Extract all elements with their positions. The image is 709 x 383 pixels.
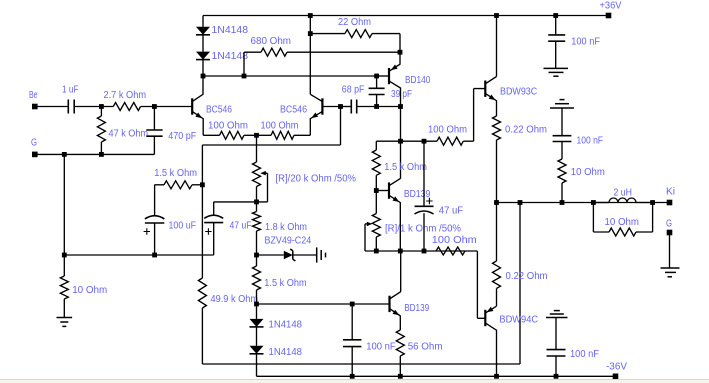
junction Q2 base node (338, 104, 343, 109)
svg-text:470 pF: 470 pF (168, 131, 196, 142)
junction 100nF mid top (350, 302, 355, 307)
label D2 1N4148 (212, 51, 249, 62)
junction bias top (254, 302, 259, 307)
svg-text:0.22 Ohm: 0.22 Ohm (505, 124, 547, 135)
junction cap row collector (398, 104, 403, 109)
ground inverted bottom (546, 311, 568, 318)
junction 680 tap (242, 74, 247, 79)
label 100 Ohm row (432, 235, 477, 246)
capacitor 470 pF (146, 107, 162, 137)
wire G right down (669, 235, 671, 268)
resistor 2.7 k Ohm (101, 103, 154, 111)
wire 680 vertical lead (243, 52, 245, 76)
label 22 Ohm (338, 17, 371, 28)
resistor 22 Ohm (310, 30, 400, 53)
wire output row (497, 202, 670, 204)
svg-text:2.7 k Ohm: 2.7 k Ohm (104, 90, 147, 101)
svg-text:BDW93C: BDW93C (500, 86, 537, 97)
junction 68pF-39pF (374, 104, 379, 109)
label +36V (600, 1, 622, 12)
svg-text:[R]/20 k Ohm /50%: [R]/20 k Ohm /50% (276, 173, 357, 184)
resistor 680 Ohm (244, 48, 400, 56)
svg-text:G: G (31, 138, 37, 149)
junction Q3 emitter row (398, 249, 403, 254)
capacitor 39 pF (369, 76, 385, 107)
junction rail 100nF (553, 13, 558, 18)
junction G-10ohm (62, 152, 67, 157)
wire feedback column (201, 145, 203, 185)
wire G line (38, 136, 155, 154)
label 49.9 k Ohm (211, 294, 259, 305)
label 47 uF mid (230, 221, 252, 232)
capacitor 68 pF (341, 100, 401, 114)
junction pot20k bottom (254, 200, 259, 205)
svg-text:BC546: BC546 (206, 105, 232, 116)
junction rail x310 (308, 13, 313, 18)
junction VAS mid (398, 139, 403, 144)
label Q1 BC546 (206, 105, 232, 116)
junction 47uF bottom row (422, 249, 427, 254)
junction out 022 (494, 200, 499, 205)
svg-text:G: G (666, 219, 672, 230)
resistor 1.5 k Ohm vas (372, 141, 400, 190)
wire driver row (376, 251, 485, 318)
diode D2 1N4148 (196, 52, 210, 76)
junction Q1 base node (152, 104, 157, 109)
svg-text:10 Ohm: 10 Ohm (571, 167, 605, 178)
junction out L1 right (650, 200, 655, 205)
label 470 pF (168, 131, 196, 142)
terminal +36V pad (606, 13, 612, 19)
transistor Q7 BD140 (377, 52, 401, 106)
label 680 Ohm (251, 36, 292, 47)
diode D1 1N4148 (196, 27, 210, 52)
svg-text:1.5 k Ohm: 1.5 k Ohm (384, 162, 427, 173)
svg-text:+36V: +36V (600, 1, 622, 12)
svg-text:100 Ohm: 100 Ohm (432, 235, 477, 246)
svg-text:1N4148: 1N4148 (212, 25, 249, 36)
svg-text:BDW94C: BDW94C (499, 315, 538, 326)
wire diode column top (202, 16, 204, 27)
label G input (31, 138, 37, 149)
zener BZV49-C24 (257, 249, 317, 261)
svg-text:68 pF: 68 pF (342, 84, 365, 95)
junction out fb (518, 200, 523, 205)
svg-text:Be: Be (29, 90, 38, 101)
wire +36V top rail (203, 15, 609, 17)
wire G down (63, 154, 65, 255)
label 2 uH (614, 188, 633, 199)
capacitor 100 nF rail+ (548, 16, 565, 69)
label BZV49-C24 (265, 235, 312, 246)
terminal Be pad (32, 104, 38, 110)
resistor 56 Ohm (396, 330, 404, 376)
capacitor 100 uF (144, 185, 165, 255)
ground earth right (661, 268, 680, 277)
label 100 nF rail- (570, 349, 599, 360)
junction input node (99, 104, 104, 109)
resistor 0.22 Ohm upper (493, 116, 501, 203)
svg-text:100 nF: 100 nF (366, 341, 395, 352)
wire rail to Q2 collector (309, 16, 311, 95)
transistor Q4 BDW93C (485, 16, 496, 117)
capacitor 100 nF zobel (553, 108, 572, 142)
resistor 1.5 k Ohm low (253, 255, 261, 304)
junction gnd rail left (62, 253, 67, 258)
svg-text:100 nF: 100 nF (570, 349, 599, 360)
svg-text:39 pF: 39 pF (391, 89, 412, 100)
ground zener rotated (317, 247, 326, 262)
svg-text:BC546: BC546 (280, 105, 307, 116)
svg-text:47 uF: 47 uF (230, 221, 252, 232)
junction rail BDW93C (494, 13, 499, 18)
svg-text:22 Ohm: 22 Ohm (338, 17, 371, 28)
label 0.22 Ohm lower (506, 271, 548, 282)
inductor 2 uH (593, 198, 652, 203)
resistor 1.8 k Ohm (253, 202, 261, 255)
svg-text:100 Ohm: 100 Ohm (208, 120, 248, 131)
label BDW94C (499, 315, 538, 326)
potentiometer R 1k (365, 191, 380, 252)
label 100 nF zobel (577, 135, 604, 146)
label 47 k Ohm (109, 128, 149, 139)
ground zobel inverted (550, 100, 574, 108)
label D3 1N4148 (269, 319, 303, 330)
label 10 Ohm left (72, 285, 107, 296)
diode D3 1N4148 (250, 304, 264, 346)
label G right (666, 219, 672, 230)
resistor 0.22 Ohm lower (493, 203, 501, 307)
wire -36V rail (257, 375, 616, 377)
potentiometer R 20k (253, 135, 268, 202)
terminal G pad (32, 152, 38, 158)
svg-text:0.22 Ohm: 0.22 Ohm (506, 271, 548, 282)
svg-text:100 Ohm: 100 Ohm (428, 124, 467, 135)
svg-text:56 Ohm: 56 Ohm (408, 341, 443, 352)
capacitor 100 nF bias (343, 304, 361, 376)
wire 47uF mid top (214, 202, 257, 216)
label 100 Ohm right (261, 120, 299, 131)
svg-text:1.5 k Ohm: 1.5 k Ohm (264, 278, 306, 289)
label Q2 BC546 (280, 105, 307, 116)
label Be (29, 90, 38, 101)
svg-text:100 uF: 100 uF (169, 221, 197, 232)
capacitor 100 nF rail- (547, 318, 566, 377)
resistor 100 Ohm row (436, 247, 465, 255)
resistor 49.9 k Ohm (198, 185, 206, 364)
junction tail (254, 133, 259, 138)
label Ki (666, 186, 675, 197)
wire feedback horizontal (202, 107, 340, 146)
junction pot bottom (374, 249, 379, 254)
label R 1k (385, 224, 461, 235)
terminal Ki pad (667, 200, 673, 206)
junction railB 56ohm (398, 374, 403, 379)
svg-text:47 k Ohm: 47 k Ohm (109, 128, 149, 139)
junction 47uF top (422, 139, 427, 144)
label 100 nF bias (366, 341, 395, 352)
label 0.22 Ohm upper (505, 124, 547, 135)
junction railB 100nF (554, 374, 559, 379)
junction 22 Ohm tap (308, 31, 313, 36)
svg-text:47 uF: 47 uF (439, 205, 463, 216)
label 2.7 k Ohm (104, 90, 147, 101)
resistor 10 Ohm parallel (593, 203, 652, 237)
label 10 Ohm zobel (571, 167, 605, 178)
resistor 100 Ohm right (257, 131, 311, 139)
label 1.5 k Ohm low (264, 278, 306, 289)
svg-text:Ki: Ki (666, 186, 675, 197)
svg-text:1N4148: 1N4148 (269, 319, 303, 330)
wire ground rail (64, 254, 213, 256)
junction G-47k (99, 152, 104, 157)
resistor 47 k Ohm (97, 107, 105, 155)
svg-text:-36V: -36V (606, 361, 627, 372)
svg-text:1.5 k Ohm: 1.5 k Ohm (154, 168, 197, 179)
label BD139 lower (404, 303, 429, 314)
transistor Q6 BDW94C (485, 306, 496, 376)
ground earth left (57, 318, 73, 327)
transistor Q1 BC546 (154, 76, 203, 135)
diode D4 1N4148 (250, 346, 264, 377)
status bar strip (0, 379, 709, 383)
junction railB 100nF bias (350, 374, 355, 379)
label -36V (606, 361, 627, 372)
junction railB BDW94C (494, 374, 499, 379)
capacitor 47 uF right (415, 141, 434, 251)
label 1.8 k Ohm (265, 222, 307, 233)
junction BD140 base node (374, 74, 379, 79)
svg-text:[R]/1 k Ohm /50%: [R]/1 k Ohm /50% (385, 224, 461, 235)
junction diode bottom (201, 74, 206, 79)
svg-text:10 Ohm: 10 Ohm (72, 285, 107, 296)
svg-text:1 uF: 1 uF (62, 84, 79, 95)
label 10 Ohm parallel (605, 217, 640, 228)
label 100 uF (169, 221, 197, 232)
svg-text:BD140: BD140 (405, 75, 431, 86)
wire node diodes to BD140 base (203, 75, 377, 77)
svg-text:BD139: BD139 (404, 189, 431, 200)
svg-text:680 Ohm: 680 Ohm (251, 36, 292, 47)
transistor Q3 BD139 (376, 178, 400, 251)
svg-text:BD139: BD139 (404, 303, 429, 314)
svg-text:10 Ohm: 10 Ohm (605, 217, 640, 228)
label 1 uF (62, 84, 79, 95)
label BD140 (405, 75, 431, 86)
terminal G right pad (667, 230, 673, 236)
wire BDW93C base lead (474, 89, 486, 142)
resistor 100 Ohm mid (401, 137, 474, 145)
wire feedback to output (202, 203, 520, 365)
junction BD140 emitter node (398, 50, 403, 55)
svg-text:2 uH: 2 uH (614, 188, 633, 199)
junction out L1 left (591, 200, 596, 205)
label D4 1N4148 (269, 347, 303, 358)
label 1.5 k Ohm vas (384, 162, 427, 173)
resistor 10 Ohm left (60, 255, 68, 318)
label 68 pF (342, 84, 365, 95)
svg-text:100 nF: 100 nF (577, 135, 604, 146)
junction out zobel (560, 200, 565, 205)
svg-text:1.8 k Ohm: 1.8 k Ohm (265, 222, 307, 233)
label 1.5 k Ohm fb (154, 168, 197, 179)
label BD139 upper (404, 189, 431, 200)
junction zener node (254, 253, 259, 258)
transistor Q2 BC546 (310, 94, 340, 135)
wire VAS column (400, 107, 402, 179)
junction feedback node (200, 182, 205, 187)
svg-text:100 Ohm: 100 Ohm (261, 120, 299, 131)
label 39 pF (391, 89, 412, 100)
resistor 100 Ohm left (203, 131, 256, 139)
label 56 Ohm (408, 341, 443, 352)
label 100 Ohm mid (428, 124, 467, 135)
terminal -36V pad (613, 374, 619, 380)
junction Q3 base (374, 188, 379, 193)
svg-text:BZV49-C24: BZV49-C24 (265, 235, 312, 246)
svg-text:1N4148: 1N4148 (212, 51, 249, 62)
label D1 1N4148 (212, 25, 249, 36)
capacitor C1 1 uF (68, 100, 101, 114)
label BDW93C (500, 86, 537, 97)
label R 20k (276, 173, 357, 184)
wire bias row (257, 303, 390, 305)
ground earth rail+ (544, 68, 569, 76)
label 47 uF right (439, 205, 463, 216)
svg-text:49.9 k Ohm: 49.9 k Ohm (211, 294, 259, 305)
transistor Q5 BD139 (390, 251, 401, 330)
capacitor 47 uF mid (204, 215, 223, 255)
label 100 Ohm left (208, 120, 248, 131)
wire Be to C1 (38, 106, 69, 108)
svg-text:100 nF: 100 nF (571, 37, 600, 48)
resistor 10 Ohm zobel (558, 142, 566, 203)
junction 100uF bottom (152, 253, 157, 258)
resistor 1.5 k Ohm fb (154, 181, 202, 189)
svg-text:1N4148: 1N4148 (269, 347, 303, 358)
label 100 nF rail+ (571, 37, 600, 48)
